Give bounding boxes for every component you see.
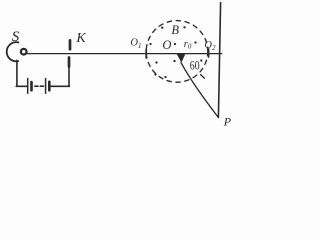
field dot <box>173 60 175 62</box>
svg-text:O2: O2 <box>204 40 216 52</box>
field dot <box>183 26 185 28</box>
svg-text:B: B <box>171 23 179 37</box>
battery cell 1 long plate <box>27 79 29 94</box>
deflected beam line to P <box>181 63 218 118</box>
field dot <box>149 43 151 45</box>
field dot <box>164 76 166 78</box>
field dot <box>174 43 176 45</box>
switch K upper contact <box>69 40 72 49</box>
svg-text:O: O <box>162 38 171 52</box>
battery cell 1 short plate <box>30 82 33 90</box>
svg-text:P: P <box>223 114 232 128</box>
svg-text:O1: O1 <box>130 38 141 50</box>
source S arc <box>7 42 19 61</box>
wire bottom left segment <box>16 85 27 87</box>
field boundary extra dash (hand-drawn bulge) <box>201 75 205 79</box>
field dot <box>154 73 156 75</box>
battery cell 2 long plate <box>45 79 47 94</box>
deflected beam arrowhead <box>177 54 186 63</box>
svg-text:60: 60 <box>190 58 200 73</box>
field region boundary: dashed circle <box>146 21 208 83</box>
svg-text:r0: r0 <box>184 39 192 51</box>
wire left lead from S down <box>16 60 18 86</box>
node O2 tick on wire <box>208 49 210 57</box>
switch K lower contact <box>68 58 71 67</box>
battery dashed middle <box>35 85 44 87</box>
degree dot of 60 <box>200 59 202 61</box>
wire right lead up to switch <box>68 66 70 86</box>
screen: vertical line <box>218 3 220 118</box>
wire beam line O1-O2 <box>27 53 222 55</box>
wire bottom right segment <box>51 85 70 87</box>
battery cell 2 short plate <box>48 82 51 90</box>
svg-text:K: K <box>75 31 86 46</box>
source S ring <box>21 49 27 55</box>
field dot <box>155 61 157 63</box>
node O1 tick on wire <box>145 49 147 58</box>
field dot <box>194 41 196 43</box>
field dot <box>161 27 163 29</box>
